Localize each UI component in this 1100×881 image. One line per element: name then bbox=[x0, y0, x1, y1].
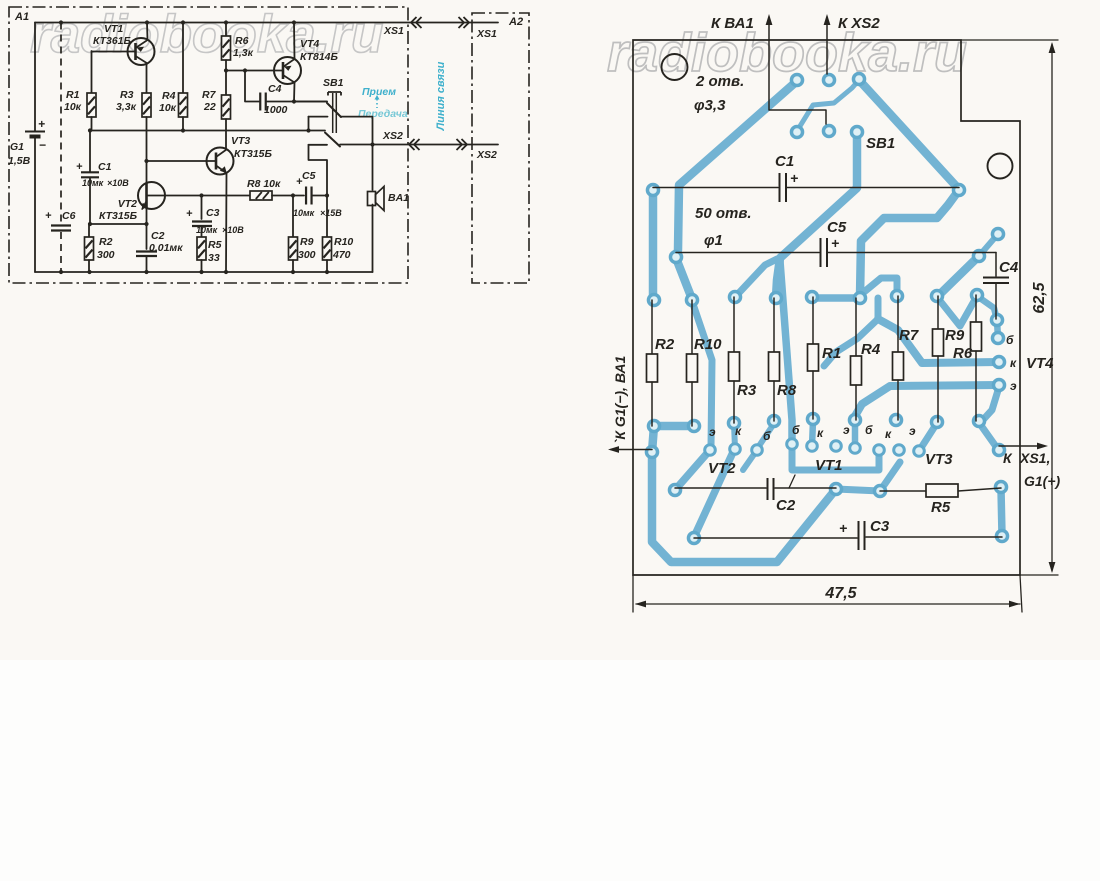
svg-text:К ВА1: К ВА1 bbox=[711, 15, 754, 32]
A1 module dash-dot border bbox=[9, 7, 408, 283]
trace VT2 cluster links bbox=[743, 450, 757, 470]
svg-text:A2: A2 bbox=[508, 16, 523, 28]
svg-text:C1: C1 bbox=[98, 161, 112, 173]
trace Y branch down from R1-R4 link bbox=[824, 298, 878, 366]
trace bottom left pads link bbox=[654, 422, 694, 431]
pads VT1 cluster bbox=[785, 437, 799, 451]
speaker BA1 bbox=[372, 145, 374, 191]
trace R10 top pad descender to VT2 e pad bbox=[692, 301, 712, 447]
svg-text:R10: R10 bbox=[334, 236, 353, 248]
svg-text:КТ814Б: КТ814Б bbox=[300, 51, 339, 63]
svg-text:XS1: XS1 bbox=[476, 28, 497, 40]
trace C5 left pad to R10 top pad bbox=[676, 258, 692, 299]
svg-text:R7: R7 bbox=[899, 327, 919, 344]
svg-text:э: э bbox=[1010, 379, 1017, 393]
svg-text:КТ361Б: КТ361Б bbox=[93, 35, 132, 47]
svg-text:300: 300 bbox=[298, 249, 316, 261]
A2 module dash-dot border bbox=[472, 13, 529, 283]
svg-text:1000: 1000 bbox=[264, 104, 288, 116]
svg-text:+: + bbox=[45, 210, 52, 222]
svg-text:R1: R1 bbox=[822, 345, 841, 362]
trace C3 left pad to VT2 b pad bbox=[694, 450, 734, 537]
trace R4 bottom pad to VT1 e pad bbox=[852, 422, 859, 448]
svg-text:+: + bbox=[76, 161, 83, 173]
resistor R9 bbox=[292, 196, 294, 238]
svg-text:10к: 10к bbox=[64, 101, 82, 113]
svg-text:C6: C6 bbox=[62, 210, 76, 222]
svg-text:R5: R5 bbox=[208, 239, 222, 251]
C4 on pcb bbox=[995, 253, 997, 277]
svg-text:XS2: XS2 bbox=[476, 149, 497, 161]
resistor R8 on pcb bbox=[773, 298, 775, 352]
svg-text:б: б bbox=[1006, 333, 1014, 347]
svg-text:э: э bbox=[909, 424, 916, 438]
svg-text:к: к bbox=[885, 427, 892, 441]
svg-text:+: + bbox=[790, 170, 798, 186]
svg-text:50 отв.: 50 отв. bbox=[695, 205, 752, 222]
svg-text:C1: C1 bbox=[775, 153, 794, 170]
pads VT4 bbox=[991, 331, 1006, 346]
svg-text:XS1: XS1 bbox=[383, 25, 404, 37]
svg-text:10мк: 10мк bbox=[293, 208, 315, 218]
svg-text:VT1: VT1 bbox=[815, 457, 843, 474]
mounting hole 2 bbox=[988, 154, 1013, 179]
collector wire VT2 to C3/R8 bbox=[165, 195, 250, 197]
svg-text:300: 300 bbox=[97, 249, 115, 261]
mounting hole 1 bbox=[662, 54, 688, 80]
PCB board outline bbox=[633, 40, 1020, 575]
svg-text:R7: R7 bbox=[202, 89, 217, 101]
trace R6 top pad to C4 bottom pad bbox=[977, 296, 997, 320]
svg-text:10мк: 10мк bbox=[82, 178, 104, 188]
svg-text:R4: R4 bbox=[162, 90, 176, 102]
svg-text:R2: R2 bbox=[99, 236, 113, 248]
svg-text:КТ315Б: КТ315Б bbox=[99, 210, 138, 222]
trace VT1 U shape bbox=[792, 444, 879, 470]
trace R9 pad zigzag to R6 pad bbox=[937, 296, 977, 326]
svg-text:470: 470 bbox=[332, 249, 351, 261]
pads SB1 bbox=[790, 73, 805, 88]
svg-text:КТ315Б: КТ315Б bbox=[234, 148, 273, 160]
svg-text:62,5: 62,5 bbox=[1031, 281, 1048, 313]
trace VT4 e band bbox=[855, 385, 999, 422]
trace VT4 e pad curve down to R6 bottom pad bbox=[981, 387, 999, 422]
svg-text:BA1: BA1 bbox=[388, 192, 409, 204]
svg-text:К XS2: К XS2 bbox=[838, 15, 880, 32]
trace SB1 row2 right pad down to R8 top pad bbox=[776, 133, 857, 297]
svg-text:VT2: VT2 bbox=[118, 198, 137, 210]
svg-text:К: К bbox=[1003, 450, 1013, 466]
wire XS2 line bbox=[340, 144, 498, 146]
svg-text:Прием: Прием bbox=[362, 86, 396, 98]
pads VT2 cluster bbox=[703, 443, 717, 457]
trace C5 right pad to C4 top pad bbox=[979, 234, 998, 256]
pads resistor bottoms row bbox=[647, 419, 662, 434]
svg-text:3,3к: 3,3к bbox=[116, 101, 137, 113]
svg-text:б: б bbox=[865, 423, 873, 437]
mid rail wire bbox=[90, 130, 325, 132]
transistor VT4 KT814B bbox=[274, 57, 301, 84]
pads bottom left bbox=[645, 445, 660, 460]
svg-text:Линия связи: Линия связи bbox=[435, 61, 447, 131]
ground bottom rail bbox=[35, 271, 373, 273]
svg-text:φ1: φ1 bbox=[704, 232, 723, 249]
svg-text:э: э bbox=[843, 423, 850, 437]
svg-text:R9: R9 bbox=[945, 327, 965, 344]
svg-text:`К G1(−), ВА1: `К G1(−), ВА1 bbox=[612, 355, 628, 444]
svg-text:10к: 10к bbox=[159, 102, 177, 114]
trace C4 bottom pad to VT4 b pad bbox=[997, 321, 998, 338]
svg-text:C4: C4 bbox=[268, 83, 282, 95]
svg-text:R4: R4 bbox=[861, 341, 881, 358]
resistor R1 on pcb bbox=[812, 297, 814, 344]
trace left column C1 pad down to R2 top pad bbox=[649, 191, 658, 299]
resistor R10 on pcb bbox=[691, 300, 693, 354]
trace C1 right pad zigzag down to R4 top pad bbox=[860, 190, 959, 297]
resistor R1 bbox=[91, 51, 93, 93]
svg-text:+: + bbox=[186, 208, 193, 220]
svg-text:C2: C2 bbox=[151, 230, 165, 242]
capacitor C5 bbox=[306, 187, 312, 205]
trace VT4 k band bbox=[878, 319, 999, 363]
svg-text:+: + bbox=[831, 235, 839, 251]
svg-text:1,3к: 1,3к bbox=[233, 47, 254, 59]
trace long diagonal SB1 pad to C5 left pad bbox=[676, 81, 797, 257]
svg-text:G1(+): G1(+) bbox=[1024, 473, 1061, 489]
svg-text:VT3: VT3 bbox=[231, 135, 250, 147]
svg-text:C5: C5 bbox=[302, 170, 316, 182]
svg-text:33: 33 bbox=[208, 252, 220, 264]
capacitor C2 bbox=[146, 224, 148, 249]
svg-text:10мк: 10мк bbox=[196, 225, 218, 235]
svg-text:×10В: ×10В bbox=[107, 178, 129, 188]
pads C4 bbox=[991, 227, 1006, 242]
trace SB1 pad3 big lambda to C1 right pad bbox=[859, 80, 959, 190]
svg-text:б: б bbox=[792, 423, 800, 437]
svg-text:R3: R3 bbox=[120, 89, 134, 101]
resistor R4 on pcb bbox=[855, 298, 857, 356]
svg-text:к: к bbox=[735, 424, 742, 438]
pads C1 row bbox=[646, 183, 661, 198]
svg-text:R8: R8 bbox=[777, 382, 797, 399]
svg-text:VT3: VT3 bbox=[925, 451, 953, 468]
pads C5 row bbox=[669, 250, 684, 265]
svg-text:A1: A1 bbox=[14, 11, 29, 23]
capacitor C3 bbox=[201, 196, 203, 220]
svg-text:1,5В: 1,5В bbox=[8, 155, 31, 167]
trace long diagonal to VT1 bbox=[780, 261, 792, 444]
svg-text:G1: G1 bbox=[10, 141, 24, 153]
svg-text:22: 22 bbox=[203, 101, 216, 113]
trace R5 right pad to C3 right pad bbox=[1001, 489, 1002, 535]
trace ground loop bottom bbox=[652, 452, 836, 562]
svg-text:э: э bbox=[709, 425, 716, 439]
svg-text:SB1: SB1 bbox=[866, 135, 895, 152]
trace R7 hook to R4 column bbox=[864, 278, 897, 296]
left arrow bbox=[611, 449, 652, 451]
trace R1 bottom pad to VT1 b pad bbox=[812, 421, 813, 446]
svg-text:R1: R1 bbox=[66, 89, 80, 101]
trace C2 left pad to VT2 e pad bbox=[675, 450, 710, 490]
svg-text:R8 10к: R8 10к bbox=[247, 178, 281, 190]
dimension 47,5 bbox=[632, 575, 634, 612]
C1 on pcb bbox=[653, 187, 778, 189]
connector XS2 chevrons bbox=[409, 139, 415, 150]
resistor R2 bbox=[88, 224, 90, 237]
trace R5 left pad up to VT3 bbox=[880, 462, 900, 491]
transistor VT2 KT315B bbox=[138, 182, 165, 209]
dotted arrow between Прием/Передача bbox=[376, 99, 378, 108]
trace R1 pad to R4 pad bbox=[812, 294, 860, 302]
pads VT3 cluster bbox=[872, 443, 886, 457]
node dots on top rail bbox=[59, 20, 63, 24]
resistor R10 bbox=[326, 196, 328, 238]
resistor R7 on pcb bbox=[897, 296, 899, 352]
svg-text:R6: R6 bbox=[235, 35, 249, 47]
svg-text:C2: C2 bbox=[776, 497, 796, 514]
svg-text:C5: C5 bbox=[827, 219, 847, 236]
svg-text:VT4: VT4 bbox=[300, 38, 319, 50]
battery G1 bbox=[34, 23, 36, 132]
resistor R3 bbox=[146, 64, 148, 93]
svg-text:к: к bbox=[817, 426, 824, 440]
svg-text:47,5: 47,5 bbox=[824, 585, 857, 602]
svg-text:+: + bbox=[839, 520, 847, 536]
svg-text:VT4: VT4 bbox=[1026, 355, 1054, 372]
svg-text:VT2: VT2 bbox=[708, 460, 736, 477]
svg-text:R2: R2 bbox=[655, 336, 675, 353]
svg-text:×15В: ×15В bbox=[320, 208, 342, 218]
dimension 62,5 bbox=[961, 39, 1058, 41]
resistor R9 on pcb bbox=[937, 296, 939, 329]
svg-text:R6: R6 bbox=[953, 345, 973, 362]
svg-text:R5: R5 bbox=[931, 499, 951, 516]
svg-text:C3: C3 bbox=[206, 207, 220, 219]
capacitor C1 bbox=[89, 131, 91, 173]
svg-text:Передача: Передача bbox=[358, 108, 408, 120]
svg-text:SB1: SB1 bbox=[323, 77, 344, 89]
R5 on pcb bbox=[880, 490, 926, 492]
pads bottom right bbox=[829, 482, 844, 497]
right label K XS1 G1 bbox=[999, 445, 1044, 447]
resistor R2 on pcb bbox=[651, 300, 653, 354]
svg-text:2 отв.: 2 отв. bbox=[695, 73, 744, 90]
pads resistor tops row bbox=[647, 293, 662, 308]
svg-text:к: к bbox=[1010, 356, 1017, 370]
trace C2 right pad to R5 left pad bbox=[836, 489, 880, 491]
trace VT3 e diagonal to R9 bottom bbox=[919, 423, 937, 451]
svg-text:−: − bbox=[39, 138, 46, 152]
trace left pad jog bbox=[652, 426, 654, 452]
trace K XS1 pad diagonal bbox=[980, 424, 997, 448]
wire top supply rail / XS1 line bbox=[35, 22, 498, 24]
svg-text:+: + bbox=[38, 117, 45, 131]
C5 on pcb bbox=[676, 252, 819, 254]
resistor R3 on pcb bbox=[733, 297, 735, 352]
C3 on pcb bbox=[694, 537, 857, 539]
transistor VT1 KT361B bbox=[128, 38, 155, 65]
resistor R6 on pcb bbox=[975, 295, 977, 322]
connector XS1 chevrons bbox=[411, 17, 417, 28]
capacitor C4 bbox=[245, 71, 259, 102]
svg-text:R3: R3 bbox=[737, 382, 757, 399]
C2 on pcb bbox=[675, 487, 766, 489]
resistor R6 bbox=[225, 23, 227, 37]
svg-text:C3: C3 bbox=[870, 518, 890, 535]
svg-text:R10: R10 bbox=[694, 336, 722, 353]
svg-text:×10В: ×10В bbox=[222, 225, 244, 235]
resistor R7 bbox=[222, 95, 231, 119]
svg-text:C4: C4 bbox=[999, 259, 1019, 276]
svg-text:XS1,: XS1, bbox=[1019, 450, 1050, 466]
dashed line + capacitor C6 bbox=[60, 23, 62, 223]
transistor VT3 KT315B bbox=[207, 148, 234, 175]
trace C5 right pad to R9 top pad bbox=[938, 256, 979, 296]
svg-text:0,01мк: 0,01мк bbox=[149, 242, 183, 254]
svg-text:XS2: XS2 bbox=[382, 130, 403, 142]
resistor R5 bbox=[197, 237, 206, 260]
svg-text:φ3,3: φ3,3 bbox=[694, 97, 726, 114]
svg-text:radiobooka.ru: radiobooka.ru bbox=[607, 23, 967, 83]
resistor R4 bbox=[182, 23, 184, 94]
svg-text:VT1: VT1 bbox=[104, 23, 123, 35]
trace SB1 row link arc bbox=[797, 80, 859, 131]
svg-text:R9: R9 bbox=[300, 236, 314, 248]
trace branch to R3 top pad bbox=[736, 259, 777, 296]
svg-text:б: б bbox=[763, 429, 771, 443]
resistor R8 horizontal bbox=[250, 191, 272, 200]
wire C1/R2 to VT2 emitter bbox=[90, 223, 147, 225]
